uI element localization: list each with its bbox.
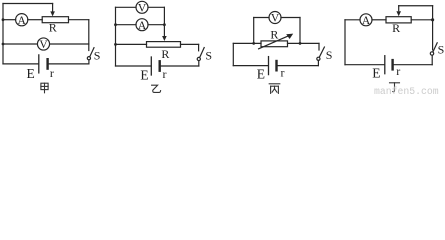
wire: left to ammeter (345, 19, 360, 21)
svg-text:E: E (372, 65, 380, 80)
wire: V loop right vertical (299, 18, 301, 44)
svg-text:S: S (205, 49, 212, 63)
svg-text:A: A (362, 15, 371, 27)
wire: ammeter to right (148, 24, 164, 26)
rheostat diagonal arrowhead (286, 34, 293, 39)
wire: V loop left vertical (253, 18, 255, 44)
wire: V loop top right (281, 17, 300, 19)
wire: resistor to right (181, 43, 199, 45)
switch S blade (433, 43, 437, 52)
wire: R row right (288, 42, 320, 44)
wire: right vertical upper (88, 20, 90, 51)
svg-text:R: R (270, 27, 278, 41)
ammeter A (360, 14, 372, 26)
switch S blade (90, 48, 94, 57)
rheostat slider stem R1 (52, 4, 54, 12)
rheostat diagonal arrow (259, 36, 289, 49)
wire: V loop top left (254, 17, 269, 19)
rheostat slider arrowhead (50, 11, 55, 16)
resistor R (box) (386, 17, 411, 23)
svg-text:A: A (18, 15, 27, 27)
svg-text:E: E (140, 68, 148, 83)
wire: left to voltmeter (3, 43, 37, 45)
svg-text:R: R (49, 21, 57, 35)
wire: left to ammeter (3, 19, 16, 21)
wire: right vertical upper (318, 43, 320, 50)
wire: left to ammeter (116, 24, 137, 26)
node: right R row (299, 42, 302, 45)
resistor R (box) (261, 41, 288, 47)
svg-text:V: V (39, 39, 48, 51)
switch S (circle) (317, 57, 320, 60)
wire: battery row left (3, 63, 38, 65)
node: left R row (252, 42, 255, 45)
svg-text:S: S (438, 42, 445, 56)
node: left R row (114, 43, 117, 46)
wire: top to voltmeter (116, 6, 137, 8)
wire: left to resistor (116, 43, 147, 45)
wire: top horizontal to slider (3, 3, 53, 5)
resistor R (box) (42, 17, 68, 23)
wire: left vertical (2, 4, 4, 64)
wire: ammeter to resistor (372, 19, 386, 21)
voltmeter V (136, 1, 148, 13)
wire: left vertical (344, 20, 346, 65)
svg-text:r: r (396, 64, 400, 78)
label 乙 (drawn) (152, 85, 161, 92)
label 甲 (drawn) (41, 83, 48, 93)
wire: battery to switch (278, 65, 319, 67)
wire: right vertical from top (432, 6, 434, 50)
wire: switch to battery (317, 60, 319, 65)
node: right A row (163, 23, 166, 26)
svg-text:S: S (326, 48, 333, 62)
svg-text:V: V (271, 13, 280, 25)
wire: switch to battery (198, 61, 200, 66)
battery short plate (46, 59, 48, 68)
battery long plate (384, 56, 386, 74)
label 丙 (drawn) (269, 84, 280, 94)
svg-text:E: E (26, 66, 34, 81)
wire: ammeter to R (28, 19, 42, 21)
battery short plate (391, 60, 393, 69)
svg-text:r: r (50, 66, 54, 80)
svg-text:R: R (161, 47, 169, 61)
svg-text:E: E (257, 66, 265, 81)
battery short plate (275, 61, 277, 70)
switch S (circle) (197, 57, 200, 60)
voltmeter V (37, 38, 49, 50)
rheostat slider arrowhead (396, 11, 401, 16)
svg-text:A: A (138, 20, 147, 32)
node: right A row (431, 18, 434, 21)
switch S blade (319, 47, 324, 57)
wire: switch to battery (431, 55, 433, 64)
label 丁 (drawn) (390, 83, 400, 92)
svg-text:R: R (392, 21, 400, 35)
wire: right vertical V row to A row (163, 7, 165, 24)
wire: battery row left (345, 64, 384, 66)
svg-text:V: V (138, 3, 147, 15)
rheostat slider arrowhead (162, 36, 167, 41)
battery long plate (38, 55, 40, 73)
battery short plate (158, 61, 160, 70)
switch S (circle) (87, 57, 90, 60)
wire: R row left (233, 42, 261, 44)
voltmeter V (269, 12, 281, 24)
wire: switch to battery row (88, 60, 90, 64)
svg-text:r: r (163, 67, 167, 81)
wire: outer left vertical (232, 43, 234, 65)
wire: right vertical upper (198, 44, 200, 50)
wire: slider top horizontal (399, 5, 433, 7)
switch S (circle) (430, 52, 433, 55)
wire: voltmeter to right (148, 6, 164, 8)
resistor R (box) (147, 42, 181, 48)
svg-text:S: S (94, 48, 101, 62)
node: left junction V row (2, 43, 5, 46)
battery long plate (268, 57, 270, 75)
wire: battery to switch (394, 64, 433, 66)
node: left junction A row (2, 18, 5, 21)
wire: resistor to right vertical (411, 19, 432, 21)
wire: R to right vertical (69, 19, 89, 21)
wire: voltmeter to right vertical (50, 43, 89, 45)
ammeter A (136, 19, 148, 31)
rheostat slider stem (398, 6, 400, 11)
wire: battery to switch (161, 65, 199, 67)
battery long plate (150, 57, 152, 75)
wire: battery to switch (49, 63, 89, 65)
node: left A row (114, 23, 117, 26)
rheostat slider stem (163, 25, 165, 37)
wire: left vertical (115, 7, 117, 66)
svg-text:r: r (281, 65, 285, 79)
svg-text:manfen5.com: manfen5.com (374, 86, 439, 96)
wire: battery row left (233, 65, 268, 67)
switch S blade (200, 48, 205, 58)
ammeter A (16, 14, 28, 26)
wire: battery row left (116, 65, 151, 67)
